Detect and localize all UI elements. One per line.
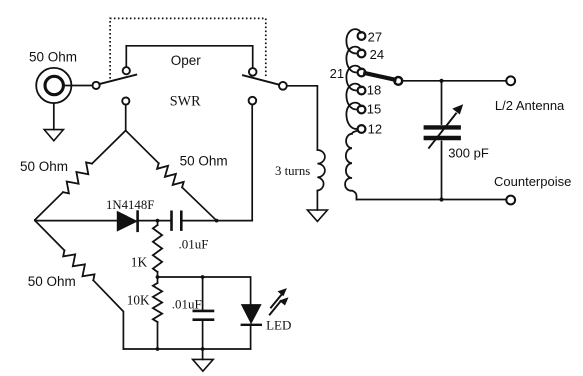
svg-text:18: 18 [367, 83, 381, 98]
wiper (tap selector) [365, 73, 394, 79]
svg-text:Oper: Oper [171, 53, 202, 68]
svg-text:50 Ohm: 50 Ohm [20, 159, 68, 174]
wire connector to S1a common [64, 85, 93, 87]
wire C1 to bridge right corner [183, 220, 253, 222]
variable capacitor C3 300 pF [441, 81, 443, 200]
svg-text:27: 27 [368, 30, 382, 45]
resistor R2 50 Ohm (bridge upper-right) [126, 131, 217, 221]
inductor L1 tapped coil [346, 29, 361, 129]
node C2 top junction [201, 275, 205, 279]
wire connector to ground [53, 103, 55, 129]
wire S1b common to L2 [287, 86, 318, 150]
tap 21 [358, 69, 366, 77]
svg-text:15: 15 [367, 102, 381, 117]
resistor R5 10K [157, 277, 159, 349]
C3 arrow [429, 114, 456, 148]
svg-text:L/2 Antenna: L/2 Antenna [495, 98, 565, 113]
svg-text:SWR: SWR [170, 93, 201, 109]
switch S1b arm [243, 75, 279, 84]
svg-text:21: 21 [330, 66, 344, 81]
node 10K top junction [156, 275, 160, 279]
ground (input) [44, 130, 63, 141]
svg-text:1K: 1K [131, 255, 148, 270]
terminal L/2 Antenna [506, 76, 515, 85]
capacitor C2 .01uF [202, 277, 204, 349]
terminal Counterpoise [506, 196, 515, 205]
inductor L2 3 turns [317, 150, 324, 191]
node 10K bottom junction [156, 347, 160, 351]
tap 18 [358, 87, 366, 95]
dotted mechanical linkage [110, 18, 266, 78]
resistor R4 1K [157, 221, 159, 277]
switch S1a arm [99, 75, 136, 84]
switch S1b SWR terminal [249, 97, 257, 105]
inductor L1 lower turns [345, 131, 357, 200]
svg-text:50 Ohm: 50 Ohm [180, 153, 228, 168]
wire S1a Oper terminal up [125, 46, 127, 67]
wire Oper link (top) [126, 46, 252, 68]
svg-text:12: 12 [368, 122, 382, 137]
ground (L2) [307, 210, 327, 221]
resistor R1 50 Ohm (bridge upper-left) [35, 131, 126, 220]
capacitor C1 .01uF [170, 212, 173, 230]
svg-text:3 turns: 3 turns [275, 164, 310, 178]
wire L2 to ground [316, 191, 318, 210]
wire diode to capacitor C1 [139, 220, 170, 222]
switch S1a SWR terminal [122, 97, 129, 104]
switch S1b Oper terminal [249, 68, 257, 76]
wire S1b SWR terminal down to bridge right [251, 104, 253, 220]
coax connector J1 (50 Ohm input) [36, 68, 71, 103]
svg-text:50 Ohm: 50 Ohm [28, 274, 76, 289]
diode D1 1N4148F [117, 212, 137, 231]
wire bottom rail [123, 348, 250, 350]
svg-text:10K: 10K [127, 293, 150, 308]
node C3 top junction [439, 79, 443, 83]
tap 12 [358, 125, 366, 133]
svg-text:.01uF: .01uF [179, 236, 209, 251]
wire wiper to antenna terminal [402, 80, 506, 82]
wire coil bottom rail [357, 199, 507, 201]
tap 24 [358, 50, 366, 58]
switch S1a common terminal [93, 82, 100, 89]
svg-text:LED: LED [266, 318, 291, 333]
tap 27 [358, 32, 366, 40]
wire bridge bottom rail (left of diode) [35, 219, 117, 222]
svg-text:300 pF: 300 pF [448, 146, 489, 161]
LED D2 [242, 305, 261, 324]
wire detector rail [158, 277, 251, 304]
svg-text:1N4148F: 1N4148F [106, 198, 154, 212]
tap 15 [358, 106, 366, 114]
switch S1a Oper terminal [123, 67, 130, 74]
wire S1a SWR terminal to bridge top [125, 105, 127, 131]
node bridge right corner [215, 219, 219, 223]
node 1K junction [156, 219, 160, 223]
resistor R3 50 Ohm (bridge lower-left) [35, 221, 123, 349]
ground (detector) [202, 349, 204, 359]
node C3 bottom junction [439, 197, 443, 201]
node ground junction [201, 347, 205, 351]
switch S1b common terminal [279, 82, 287, 90]
svg-text:Counterpoise: Counterpoise [494, 174, 571, 189]
svg-text:.01uF: .01uF [172, 296, 202, 311]
svg-text:50 Ohm: 50 Ohm [29, 50, 77, 65]
svg-text:24: 24 [370, 47, 384, 62]
LED light arrows [270, 294, 282, 315]
